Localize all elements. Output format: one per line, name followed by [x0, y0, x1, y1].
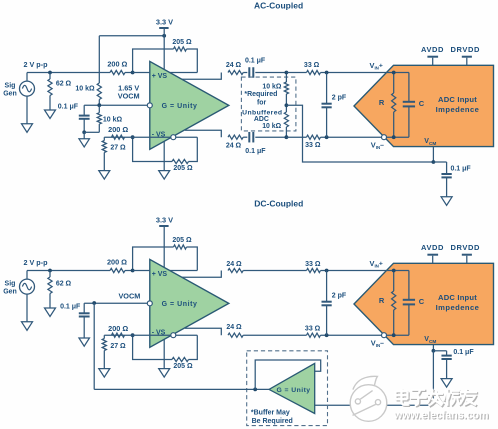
svg-text:2 V p-p: 2 V p-p [24, 258, 49, 267]
svg-text:33 Ω: 33 Ω [305, 325, 321, 332]
svg-text:62 Ω: 62 Ω [56, 281, 72, 288]
svg-text:205 Ω: 205 Ω [172, 237, 192, 244]
svg-text:C: C [419, 297, 425, 306]
svg-text:*Buffer May: *Buffer May [251, 410, 290, 417]
svg-text:10 kΩ: 10 kΩ [262, 123, 281, 130]
svg-text:G = Unity: G = Unity [276, 387, 310, 394]
svg-text:24 Ω: 24 Ω [226, 142, 242, 149]
svg-text:DRVDD: DRVDD [451, 45, 481, 54]
svg-text:VOCM: VOCM [118, 91, 140, 100]
svg-text:33 Ω: 33 Ω [305, 261, 321, 268]
svg-text:AVDD: AVDD [421, 45, 444, 54]
svg-text:2 pF: 2 pF [332, 293, 347, 300]
svg-text:G = Unity: G = Unity [162, 301, 198, 308]
svg-text:*Required: *Required [244, 91, 277, 98]
svg-text:200 Ω: 200 Ω [108, 125, 128, 134]
svg-text:62 Ω: 62 Ω [56, 81, 72, 88]
svg-text:0.1 μF: 0.1 μF [58, 104, 79, 111]
svg-text:VOCM: VOCM [118, 291, 140, 300]
svg-text:www.elecfans.com: www.elecfans.com [393, 409, 488, 421]
svg-text:ADC Input: ADC Input [438, 293, 477, 302]
svg-text:33 Ω: 33 Ω [304, 62, 320, 69]
svg-text:0.1 μF: 0.1 μF [453, 349, 474, 356]
svg-text:200 Ω: 200 Ω [107, 60, 127, 69]
svg-text:205 Ω: 205 Ω [173, 363, 193, 370]
svg-text:0.1 μF: 0.1 μF [450, 166, 471, 173]
svg-text:Impedence: Impedence [436, 303, 480, 312]
svg-text:24 Ω: 24 Ω [226, 261, 242, 268]
svg-text:AC-Coupled: AC-Coupled [254, 1, 303, 11]
svg-text:R: R [379, 296, 385, 305]
svg-text:27 Ω: 27 Ω [110, 343, 126, 350]
svg-text:205 Ω: 205 Ω [173, 165, 193, 172]
svg-text:ADC Input: ADC Input [438, 95, 477, 104]
svg-text:0.1 μF: 0.1 μF [245, 58, 266, 65]
svg-text:Gen: Gen [3, 91, 17, 98]
svg-text:C: C [419, 99, 425, 108]
svg-text:205 Ω: 205 Ω [172, 39, 192, 46]
svg-text:Sig: Sig [5, 83, 16, 90]
svg-text:for: for [257, 100, 267, 107]
svg-text:10 kΩ: 10 kΩ [262, 83, 281, 90]
svg-text:10 kΩ: 10 kΩ [103, 117, 123, 124]
svg-text:G = Unity: G = Unity [162, 103, 198, 110]
svg-text:10 kΩ: 10 kΩ [75, 86, 95, 93]
svg-text:3.3 V: 3.3 V [156, 17, 173, 26]
svg-text:24 Ω: 24 Ω [226, 62, 242, 69]
svg-text:Impedence: Impedence [436, 105, 480, 114]
svg-text:2 pF: 2 pF [332, 95, 347, 102]
svg-text:3.3 V: 3.3 V [156, 215, 173, 224]
svg-text:+ VS: + VS [152, 271, 168, 278]
svg-text:0.1 μF: 0.1 μF [60, 303, 81, 310]
svg-text:0.1 μF: 0.1 μF [245, 148, 266, 155]
svg-text:200 Ω: 200 Ω [108, 324, 128, 333]
svg-text:ADC: ADC [254, 116, 269, 123]
svg-text:200 Ω: 200 Ω [107, 258, 127, 267]
svg-text:33 Ω: 33 Ω [305, 142, 321, 149]
svg-text:R: R [379, 98, 385, 107]
svg-text:2 V p-p: 2 V p-p [24, 60, 49, 69]
svg-text:27 Ω: 27 Ω [110, 144, 126, 151]
svg-text:Sig: Sig [5, 281, 16, 288]
svg-text:+ VS: + VS [152, 73, 168, 80]
svg-text:DC-Coupled: DC-Coupled [254, 199, 303, 209]
svg-text:Be Required: Be Required [252, 418, 293, 425]
svg-text:Gen: Gen [3, 289, 17, 296]
svg-text:24 Ω: 24 Ω [226, 324, 242, 331]
svg-text:DRVDD: DRVDD [451, 243, 481, 252]
svg-text:AVDD: AVDD [421, 243, 444, 252]
